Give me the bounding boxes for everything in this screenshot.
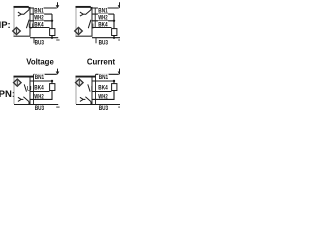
label BK4 xyxy=(34,21,44,29)
target diamond xyxy=(75,27,83,34)
wire BU3 (-) xyxy=(76,104,120,106)
sensor box (PNP, U output) xyxy=(14,7,31,36)
switch contact with actuation arrow xyxy=(18,7,29,16)
label WH2 xyxy=(34,94,44,101)
wire vertical to load resistor xyxy=(113,14,115,29)
wire resistor return xyxy=(92,91,114,100)
switch contact with actuation arrow xyxy=(80,7,91,16)
label WH2 xyxy=(34,14,44,22)
svg-text:BN1: BN1 xyxy=(35,74,45,81)
analog output symbol \I xyxy=(88,84,93,93)
sensor box (NPN, U output) xyxy=(14,77,34,105)
junction dot on BU3 xyxy=(51,37,53,39)
target diamond xyxy=(76,79,84,86)
switch contact with actuation arrow xyxy=(18,97,29,105)
sensor box (NPN, I output) xyxy=(76,77,96,105)
load resistor xyxy=(50,29,55,36)
target diamond xyxy=(13,27,21,34)
label BN1 xyxy=(98,74,108,81)
wire BK4 xyxy=(30,20,52,22)
label BN1 xyxy=(34,7,44,14)
svg-text:BU3: BU3 xyxy=(99,105,109,112)
minus supply dash xyxy=(118,39,121,41)
wire below BK4 label xyxy=(30,27,50,29)
heading NPN: (left-clipped) xyxy=(0,89,15,100)
load resistor xyxy=(112,29,117,36)
svg-text:NPN:: NPN: xyxy=(0,89,15,100)
label WH2 xyxy=(98,94,108,101)
column header Current xyxy=(87,58,116,67)
svg-text:BK4: BK4 xyxy=(34,85,44,92)
wire WH2 xyxy=(92,13,114,15)
plus supply arrow xyxy=(118,69,122,75)
minus supply dash xyxy=(118,106,121,108)
label BU3 xyxy=(99,40,109,47)
wire WH2 xyxy=(92,91,112,93)
analog output symbol /U xyxy=(26,20,33,31)
analog output symbol /I xyxy=(88,20,94,31)
wire BK4 xyxy=(92,80,114,82)
label BN1 xyxy=(34,74,44,81)
plus supply arrow xyxy=(118,2,122,8)
junction dot BK4/WH2 xyxy=(51,20,53,22)
sensor box (PNP, I output) xyxy=(76,7,93,36)
column header Voltage xyxy=(26,58,54,67)
wire BU3 (-) xyxy=(30,38,58,44)
minus supply dash xyxy=(56,39,59,41)
svg-text:I: I xyxy=(91,86,93,93)
svg-text:BN1: BN1 xyxy=(99,74,109,81)
switch contact with actuation arrow xyxy=(80,97,91,105)
wire BN1 (+) xyxy=(34,74,57,104)
wire resistor to BU3 xyxy=(51,36,53,38)
wire vertical to load resistor xyxy=(51,14,53,29)
wire BN1 (+) xyxy=(91,8,119,28)
label BK4 xyxy=(34,85,44,92)
wire BK4 xyxy=(30,80,52,82)
wire below BK4 label xyxy=(92,27,112,29)
junction dot BK4 xyxy=(51,80,53,82)
junction dot on BU3 xyxy=(113,37,115,39)
analog output symbol \U xyxy=(24,84,31,93)
label BU3 xyxy=(35,40,45,47)
heading PNP: (left-clipped) xyxy=(0,20,11,31)
svg-text:Current: Current xyxy=(87,58,116,67)
wire BK4 xyxy=(92,20,114,22)
label BU3 xyxy=(35,105,45,112)
svg-text:Voltage: Voltage xyxy=(26,58,54,67)
wire WH2 xyxy=(30,13,52,15)
svg-text:BU3: BU3 xyxy=(99,40,109,47)
label BK4 xyxy=(98,21,108,29)
svg-text:BU3: BU3 xyxy=(35,105,45,112)
svg-text:BU3: BU3 xyxy=(35,40,45,47)
wire BN1 (+) xyxy=(29,8,57,28)
svg-text:BN1: BN1 xyxy=(98,7,108,14)
svg-text:U: U xyxy=(27,86,32,93)
svg-text:PNP:: PNP: xyxy=(0,20,11,31)
label BK4 xyxy=(98,85,108,92)
junction dot BK4 xyxy=(113,80,115,82)
plus supply arrow xyxy=(56,2,60,8)
wire resistor to BU3 xyxy=(113,36,115,38)
minus supply dash xyxy=(56,106,59,108)
target diamond xyxy=(14,79,22,86)
junction dot BK4/WH2 xyxy=(113,20,115,22)
label WH2 xyxy=(98,14,108,22)
svg-text:BK4: BK4 xyxy=(98,85,108,92)
load resistor xyxy=(50,81,55,91)
svg-text:BN1: BN1 xyxy=(34,7,44,14)
label BU3 xyxy=(99,105,109,112)
wire BU3 (-) xyxy=(14,104,58,106)
plus supply arrow xyxy=(56,69,60,75)
wire BU3 (-) xyxy=(92,38,120,44)
wire resistor return xyxy=(30,91,52,100)
wire BN1 (+) xyxy=(96,74,119,104)
load resistor xyxy=(112,81,117,91)
wire WH2 xyxy=(30,91,50,93)
label BN1 xyxy=(98,7,108,14)
